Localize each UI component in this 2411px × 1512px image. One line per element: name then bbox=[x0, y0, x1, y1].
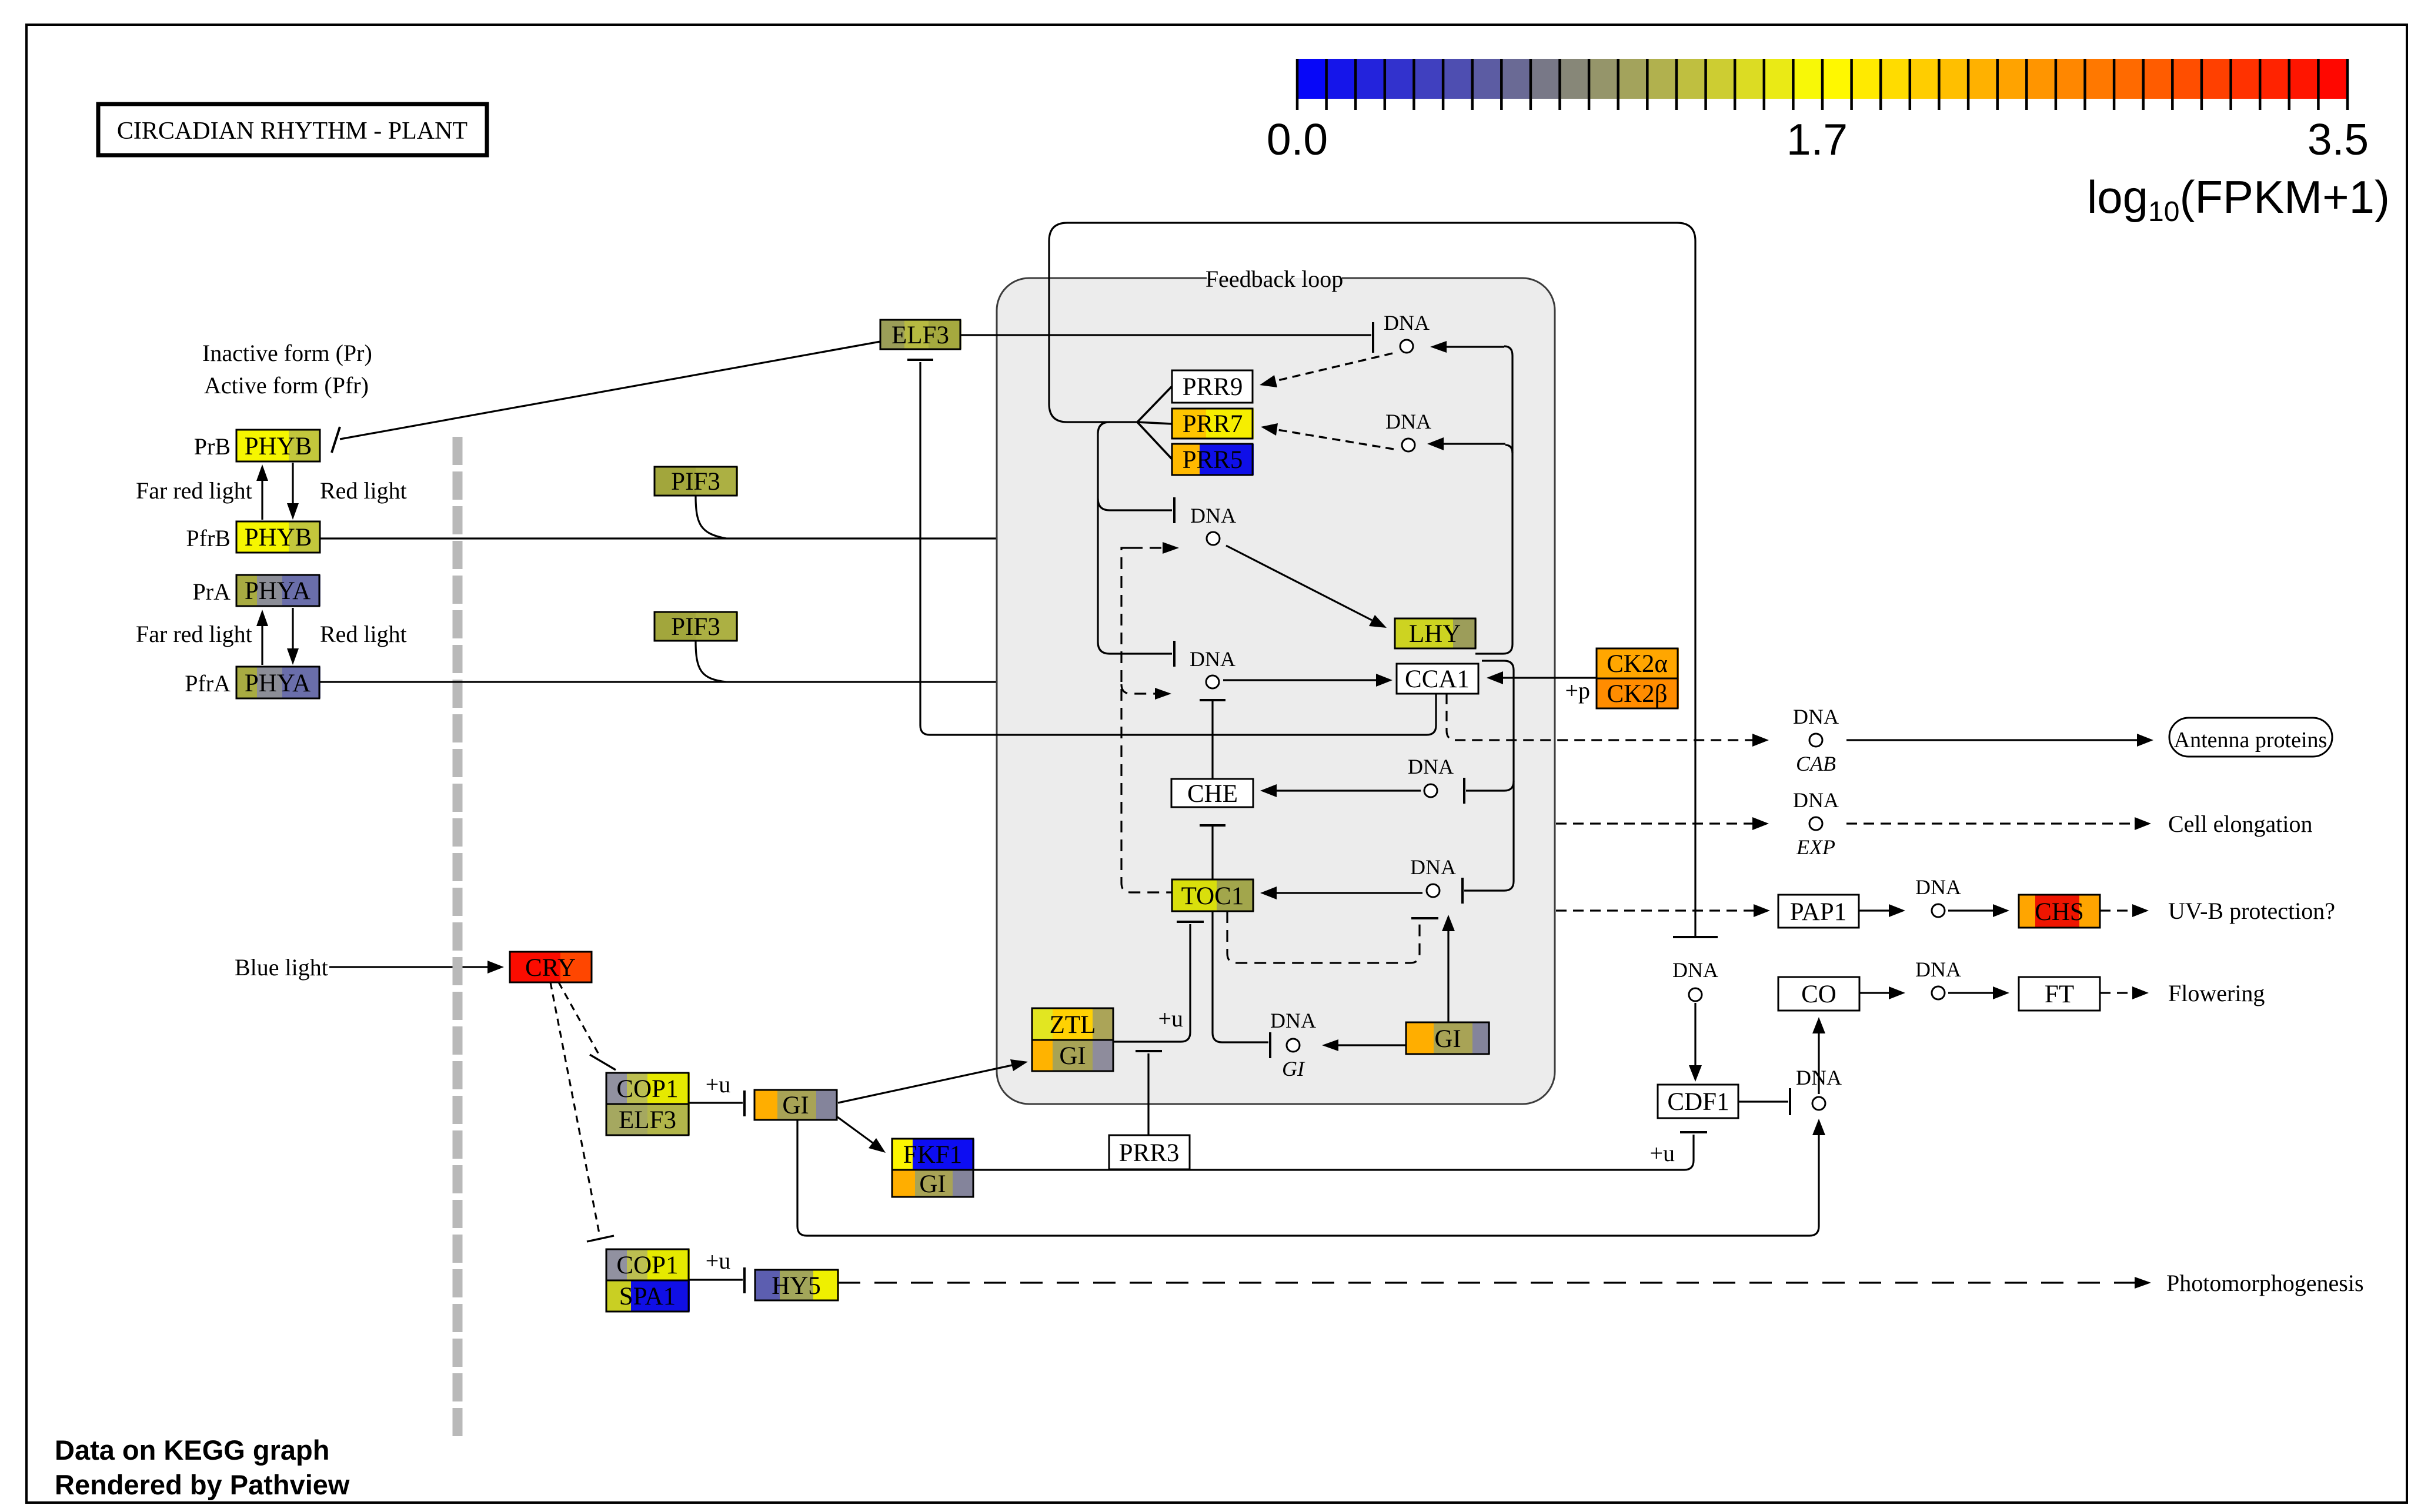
wire ELF3 to DNA (PRR9 gene) bbox=[960, 334, 1371, 336]
arrow DNA-CHE to CHE bbox=[1260, 784, 1421, 797]
svg-text:CK2α: CK2α bbox=[1607, 650, 1668, 678]
box FT bbox=[2019, 977, 2101, 1011]
inhibit bar at DNA5 (TOC1 gene) bbox=[1461, 878, 1464, 904]
dashed arrow DNA1 to PRR9 bbox=[1260, 353, 1392, 387]
svg-text:PHYB: PHYB bbox=[245, 433, 312, 460]
inhibit bar at DNA3 label bbox=[1173, 497, 1176, 523]
svg-text:DNA: DNA bbox=[1915, 958, 1961, 981]
inhibit bar CDF1 at DNA-CO bbox=[1789, 1088, 1791, 1115]
svg-text:PHYB: PHYB bbox=[245, 524, 312, 551]
node DNA3 (LHY gene) bbox=[1190, 504, 1236, 545]
inhibit bar TOC1 at CHE bbox=[1200, 824, 1225, 827]
dashed wire DNA-EXP to cell elongation bbox=[1846, 822, 2135, 824]
svg-text:PRR3: PRR3 bbox=[1119, 1139, 1180, 1167]
box PRR9 bbox=[1172, 370, 1253, 403]
box CK2a bbox=[1597, 648, 1679, 678]
arrow DNA5 to TOC1 bbox=[1260, 887, 1422, 899]
svg-text:CHS: CHS bbox=[2035, 898, 2084, 926]
svg-text:PRR9: PRR9 bbox=[1183, 373, 1243, 401]
svg-text:Far red light: Far red light bbox=[136, 477, 252, 504]
arrow CO to DNA-FT bbox=[1859, 986, 1905, 999]
arrowhead dashed into DNA-CAB bbox=[1752, 734, 1769, 747]
svg-text:Blue light: Blue light bbox=[235, 954, 328, 981]
wire PRR3 up bbox=[1147, 1053, 1149, 1135]
arrow GI to FKF1 complex bbox=[837, 1117, 886, 1153]
dashed wire loop to DNA-EXP bbox=[1556, 822, 1752, 824]
svg-text:CHE: CHE bbox=[1187, 780, 1238, 808]
inhibit bar ZTL at TOC1 bbox=[1177, 921, 1204, 923]
box PIF3 (upper) bbox=[654, 467, 738, 496]
svg-text:Flowering: Flowering bbox=[2168, 980, 2265, 1006]
feedback loop grey box bbox=[997, 278, 1555, 1104]
dashed wire CRY inhibits COP1/SPA1 bbox=[550, 982, 599, 1233]
arrow DNA to CDF1 bbox=[1689, 1003, 1702, 1082]
box PIF3 (lower) bbox=[654, 612, 738, 641]
svg-text:TOC1: TOC1 bbox=[1181, 882, 1244, 910]
wire CDF1 to DNA-CO bbox=[1738, 1100, 1788, 1102]
colorbar ticks bbox=[1297, 59, 2347, 110]
dashed arrow DNA2 to PRR7 bbox=[1261, 423, 1394, 449]
arrow GI to ZTL complex bbox=[838, 1059, 1028, 1103]
svg-text:Photomorphogenesis: Photomorphogenesis bbox=[2166, 1270, 2364, 1296]
box GI (free) bbox=[754, 1090, 837, 1120]
svg-text:SPA1: SPA1 bbox=[619, 1283, 676, 1310]
node DNA-EXP bbox=[1793, 788, 1839, 859]
svg-text:CCA1: CCA1 bbox=[1405, 665, 1470, 693]
inhibit bar at PrB PHYB bbox=[332, 427, 340, 453]
arrowhead photomorphogenesis bbox=[2135, 1277, 2151, 1289]
wire arc vertical to LHY bbox=[1503, 644, 1512, 654]
node DNA-CAB bbox=[1793, 705, 1839, 775]
node DNA-CHE bbox=[1408, 755, 1454, 797]
node DNA1 (PRR9 gene) bbox=[1384, 311, 1430, 353]
box HY5 bbox=[755, 1270, 839, 1300]
svg-text:log10(FPKM+1): log10(FPKM+1) bbox=[2087, 171, 2390, 228]
box LHY bbox=[1395, 618, 1477, 648]
colorbar cells bbox=[1297, 59, 2348, 99]
svg-text:EXP: EXP bbox=[1796, 835, 1835, 859]
box PHYA (PfrA) bbox=[236, 667, 320, 698]
svg-text:Red light: Red light bbox=[320, 621, 407, 647]
arrow DNA-CAB to antenna proteins bbox=[1846, 734, 2153, 747]
box CHE bbox=[1171, 779, 1254, 808]
node DNA4 (CCA1 gene) bbox=[1190, 647, 1235, 688]
box COP1 (with ELF3) bbox=[606, 1073, 690, 1104]
wire PfrA to DNA (CCA1 gene) bbox=[319, 681, 1147, 683]
box ELF3 (with COP1) bbox=[606, 1104, 690, 1135]
svg-text:LHY: LHY bbox=[1409, 620, 1461, 648]
capsule Antenna proteins bbox=[2169, 718, 2332, 757]
inhibit bar at DNA (CDF1 gene) bbox=[1673, 936, 1718, 938]
svg-text:PrA: PrA bbox=[193, 578, 231, 605]
svg-text:GI: GI bbox=[919, 1170, 946, 1198]
svg-text:Feedback loop: Feedback loop bbox=[1205, 266, 1343, 292]
box FKF1 bbox=[892, 1139, 974, 1170]
svg-text:DNA: DNA bbox=[1190, 504, 1236, 527]
dashed spur into DNA4 bbox=[1121, 684, 1155, 694]
inhibit bar CRY at COP1/SPA1 bbox=[587, 1236, 614, 1242]
box SPA1 bbox=[606, 1280, 690, 1312]
svg-text:+u: +u bbox=[706, 1071, 731, 1098]
arrowhead GI wire up into DNA-CO bbox=[1812, 1119, 1825, 1135]
wire arc DNA1 to vertical bbox=[1504, 346, 1512, 356]
wire FKF1 to CDF1 inhibition bbox=[973, 1135, 1694, 1170]
svg-text:ELF3: ELF3 bbox=[619, 1106, 676, 1134]
svg-text:DNA: DNA bbox=[1190, 647, 1235, 671]
gap in border for label bbox=[1207, 271, 1342, 278]
svg-text:Inactive form (Pr): Inactive form (Pr) bbox=[202, 340, 372, 366]
svg-text:PRR5: PRR5 bbox=[1183, 446, 1243, 474]
svg-text:GI: GI bbox=[1059, 1042, 1086, 1070]
svg-text:DNA: DNA bbox=[1408, 755, 1454, 778]
svg-text:PRR7: PRR7 bbox=[1183, 410, 1243, 438]
svg-text:PrB: PrB bbox=[194, 433, 231, 460]
box TOC1 bbox=[1172, 879, 1254, 911]
svg-text:DNA: DNA bbox=[1410, 855, 1456, 879]
node DNA2 (PRR7 gene) bbox=[1385, 410, 1431, 451]
box PHYA (PrA) bbox=[236, 575, 320, 606]
box GI (FKF1 complex) bbox=[892, 1170, 974, 1198]
wire branch to DNA3 bar bbox=[1098, 499, 1172, 510]
svg-text:1.7: 1.7 bbox=[1786, 115, 1848, 164]
wire COP1 to GI bbox=[689, 1102, 743, 1103]
svg-text:PHYA: PHYA bbox=[245, 670, 310, 697]
node DNA-CDF1 gene bbox=[1672, 958, 1718, 1001]
arrow CK2 to CCA1 bbox=[1487, 671, 1597, 684]
node DNA-FT bbox=[1915, 958, 1961, 999]
dashed wire CHS to UV-B bbox=[2100, 909, 2133, 911]
inhibit bar PRR3 at ZTL wire bbox=[1136, 1050, 1162, 1052]
arrow PAP1 to DNA bbox=[1859, 904, 1905, 917]
title box CIRCADIAN RHYTHM - PLANT bbox=[98, 104, 487, 155]
inhibit bar at DNA4 label bbox=[1173, 641, 1176, 667]
svg-text:GI: GI bbox=[1434, 1025, 1461, 1053]
svg-text:+u: +u bbox=[706, 1247, 731, 1274]
wire branch down from PRR junction bbox=[1098, 422, 1172, 654]
svg-text:DNA: DNA bbox=[1270, 1009, 1316, 1032]
svg-text:+p: +p bbox=[1565, 677, 1590, 704]
wire ZTL to TOC1 inhibition bbox=[1113, 924, 1190, 1042]
wire COP1 to HY5 bbox=[689, 1279, 743, 1280]
svg-text:GI: GI bbox=[1282, 1057, 1305, 1081]
wire GI down to CO DNA bbox=[797, 1120, 1819, 1236]
inhibit bar under ELF3 bbox=[907, 359, 933, 361]
svg-text:FT: FT bbox=[2045, 981, 2074, 1008]
svg-text:PIF3: PIF3 bbox=[671, 613, 720, 641]
svg-text:UV-B protection?: UV-B protection? bbox=[2168, 898, 2335, 924]
inhibit bar CRY at COP1/ELF3 bbox=[590, 1055, 616, 1070]
svg-text:FKF1: FKF1 bbox=[903, 1141, 962, 1169]
inhibit bar at DNA6 bbox=[1269, 1032, 1271, 1058]
arrowhead flowering bbox=[2132, 986, 2149, 999]
arrow GI to DNA6 bbox=[1322, 1039, 1406, 1051]
arrow PrB to PfrB (red) bbox=[287, 463, 299, 520]
box GI (loop) bbox=[1406, 1022, 1490, 1054]
arrowhead PHYA wire at DNA node bbox=[1147, 676, 1163, 688]
svg-text:PfrB: PfrB bbox=[186, 525, 231, 551]
wire outer loop PRR junction around to CDF1 DNA bbox=[1049, 223, 1695, 937]
svg-text:CIRCADIAN RHYTHM - PLANT: CIRCADIAN RHYTHM - PLANT bbox=[117, 118, 467, 145]
box PRR7 bbox=[1172, 409, 1254, 439]
arrow PfrB to PrB (far red) bbox=[256, 464, 268, 520]
wire right loop into DNA2 bbox=[1438, 443, 1505, 444]
svg-text:DNA: DNA bbox=[1385, 410, 1431, 433]
inhibit bar at DNA-CHE bbox=[1463, 778, 1465, 804]
wire CCA1 right loop down bbox=[1464, 661, 1514, 891]
arrowhead PHYB wire at DNA node bbox=[1161, 533, 1178, 544]
wire ELF3 to PHYB diagonal bbox=[340, 342, 880, 439]
svg-text:HY5: HY5 bbox=[772, 1272, 821, 1300]
dashed wire HY5 to photomorphogenesis bbox=[838, 1282, 2135, 1283]
svg-text:ELF3: ELF3 bbox=[891, 322, 949, 349]
svg-text:GI: GI bbox=[782, 1092, 809, 1119]
wire right loop into DNA1 bbox=[1440, 346, 1504, 347]
arrowhead dashed into DNA3 bbox=[1163, 542, 1179, 554]
box CRY bbox=[510, 952, 592, 982]
wire CHE DNA bar link bbox=[1466, 790, 1504, 791]
arrow GI up to DNA5 bbox=[1442, 915, 1455, 1022]
svg-text:PAP1: PAP1 bbox=[1790, 898, 1846, 926]
svg-text:PfrA: PfrA bbox=[185, 670, 231, 697]
box PHYB (PrB) bbox=[236, 430, 320, 461]
box PRR3 bbox=[1109, 1135, 1190, 1169]
arrowhead dashed into DNA4 bbox=[1155, 688, 1171, 700]
box COP1 (with SPA1) bbox=[606, 1249, 690, 1280]
svg-text:CK2β: CK2β bbox=[1607, 680, 1667, 708]
box ZTL bbox=[1032, 1008, 1114, 1040]
arrowhead into DNA2 bbox=[1427, 437, 1444, 450]
arrow DNA-CO up to CO bbox=[1812, 1017, 1825, 1094]
svg-text:DNA: DNA bbox=[1672, 958, 1718, 982]
box PHYB (PfrB) bbox=[236, 521, 320, 553]
svg-text:DNA: DNA bbox=[1915, 875, 1961, 899]
svg-text:COP1: COP1 bbox=[616, 1252, 678, 1279]
wire CHE up bbox=[1211, 700, 1213, 779]
arrow DNA-CHS to CHS bbox=[1948, 904, 2009, 917]
dashed wire TOC1 inhibits DNA5 bbox=[1227, 911, 1420, 963]
dashed wire loop to PAP1 bbox=[1556, 909, 1755, 911]
wire TOC1 up to CHE bbox=[1211, 825, 1213, 879]
svg-text:Rendered by Pathview: Rendered by Pathview bbox=[55, 1469, 350, 1500]
inhibit bar FKF1 at CDF1 bbox=[1680, 1131, 1707, 1133]
svg-text:+u: +u bbox=[1158, 1005, 1183, 1032]
svg-text:ZTL: ZTL bbox=[1050, 1011, 1096, 1039]
wire CCA1 to ELF3 inhibition bbox=[920, 362, 1436, 735]
svg-text:3.5: 3.5 bbox=[2308, 115, 2369, 164]
box CDF1 bbox=[1658, 1085, 1739, 1118]
svg-text:PHYA: PHYA bbox=[245, 577, 310, 605]
box CHS bbox=[2019, 895, 2101, 928]
dashed wire CRY inhibits COP1/ELF3 bbox=[559, 982, 599, 1054]
svg-text:Antenna proteins: Antenna proteins bbox=[2174, 728, 2327, 752]
box CO bbox=[1778, 977, 1861, 1011]
dashed wire CCA1 to output rows bbox=[1447, 694, 1752, 740]
box PRR5 bbox=[1172, 444, 1254, 475]
inhibit bar ELF3 at DNA1 bbox=[1372, 322, 1374, 353]
arrowhead dashed into DNA-EXP bbox=[1752, 817, 1769, 830]
membrane dashed line bbox=[453, 437, 463, 1439]
wire PfrB to DNA (LHY gene) bbox=[320, 537, 1161, 539]
arrow PrA to PfrA (red) bbox=[287, 608, 299, 665]
arrow DNA-FT to FT bbox=[1948, 986, 2009, 999]
dashed spur into DNA3 bbox=[1131, 547, 1163, 548]
svg-text:DNA: DNA bbox=[1793, 788, 1839, 812]
arrowhead cell elongation bbox=[2135, 817, 2151, 830]
wire arc DNA2 branch bbox=[1505, 445, 1512, 453]
arrow Blue light to CRY bbox=[329, 961, 504, 974]
svg-text:+u: +u bbox=[1649, 1140, 1675, 1166]
arrow DNA4 to CCA1 bbox=[1223, 674, 1392, 687]
svg-text:DNA: DNA bbox=[1384, 311, 1430, 334]
arrowhead dashed into PAP1 bbox=[1754, 904, 1770, 917]
svg-text:Data on KEGG graph: Data on KEGG graph bbox=[55, 1434, 329, 1466]
arrowhead into DNA1 bbox=[1430, 341, 1447, 353]
arrowhead UV-B bbox=[2132, 904, 2149, 917]
node DNA6 (GI gene) bbox=[1270, 1009, 1316, 1081]
arrow PfrA to PrA (far red) bbox=[256, 610, 268, 665]
node DNA5 (TOC1 gene) bbox=[1410, 855, 1456, 897]
wire branch to CHE DNA bbox=[1504, 781, 1514, 791]
wire PIF3 upper to PHYB line bbox=[696, 496, 726, 538]
inhibit bar dashed at DNA5 bbox=[1411, 917, 1438, 919]
wire TOC1 down to DNA6 bbox=[1213, 911, 1268, 1042]
svg-text:PIF3: PIF3 bbox=[671, 468, 720, 496]
svg-text:Cell elongation: Cell elongation bbox=[2168, 811, 2313, 837]
box ELF3 bbox=[880, 320, 961, 349]
svg-text:CDF1: CDF1 bbox=[1667, 1088, 1729, 1116]
wire fan junction to PRR9 PRR7 PRR5 bbox=[1137, 386, 1172, 459]
box GI (ZTL complex) bbox=[1032, 1040, 1114, 1071]
box PAP1 bbox=[1778, 895, 1859, 928]
inhibit bar COP1 at HY5 bbox=[743, 1267, 746, 1293]
svg-text:Red light: Red light bbox=[320, 477, 407, 504]
svg-text:Active form (Pfr): Active form (Pfr) bbox=[204, 372, 369, 399]
inhibit bar COP1 at GI bbox=[743, 1090, 746, 1116]
svg-text:COP1: COP1 bbox=[616, 1075, 678, 1103]
svg-text:DNA: DNA bbox=[1793, 705, 1839, 728]
svg-text:0.0: 0.0 bbox=[1267, 115, 1328, 164]
svg-text:CO: CO bbox=[1801, 981, 1836, 1008]
box CK2b bbox=[1597, 678, 1679, 708]
svg-text:Far red light: Far red light bbox=[136, 621, 252, 647]
dashed wire TOC1 to DNA3/DNA4 vertical bbox=[1121, 548, 1172, 892]
node DNA-CHS bbox=[1915, 875, 1961, 917]
wire PIF3 lower to PHYA line bbox=[696, 641, 726, 682]
arrow DNA3 to LHY bbox=[1226, 546, 1387, 628]
svg-text:CRY: CRY bbox=[525, 954, 576, 982]
node DNA-CO bbox=[1796, 1066, 1842, 1110]
svg-text:CAB: CAB bbox=[1796, 752, 1836, 775]
inhibit bar CHE at DNA4 bbox=[1200, 699, 1225, 701]
dashed wire FT to flowering bbox=[2100, 992, 2133, 993]
wire to LHY right edge bbox=[1475, 653, 1503, 654]
box CCA1 bbox=[1397, 664, 1479, 694]
wire right vertical LHY to PRR DNAs bbox=[1511, 356, 1513, 644]
